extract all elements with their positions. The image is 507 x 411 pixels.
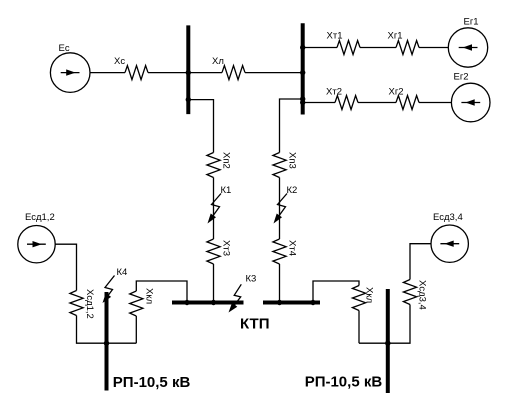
- svg-text:К2: К2: [287, 185, 298, 196]
- svg-text:Xc: Xc: [114, 56, 125, 67]
- resistor Xkl right: [352, 286, 365, 311]
- wire bus1 to left feeder drop: [188, 100, 213, 153]
- svg-text:К4: К4: [117, 267, 128, 278]
- node KTP-left-b: [211, 300, 216, 305]
- svg-text:Хт1: Хт1: [327, 30, 343, 41]
- node RP-left: [104, 341, 109, 346]
- svg-text:Хт4: Хт4: [287, 240, 298, 256]
- svg-text:Ег1: Ег1: [464, 16, 479, 27]
- fault K4: [103, 276, 115, 304]
- svg-text:Ег2: Ег2: [454, 72, 469, 83]
- resistor Xt1: [337, 41, 360, 55]
- svg-text:Хсд1,2: Хсд1,2: [84, 289, 95, 319]
- RP bus right: [386, 289, 390, 393]
- wire Xg1 to Eg1: [419, 47, 448, 49]
- wire Esd34 to Xsd34: [410, 244, 431, 280]
- KTP bus right section: [263, 301, 320, 305]
- svg-text:Хл: Хл: [212, 56, 224, 67]
- wire Xt1 to Xg1: [360, 47, 396, 49]
- wire Xc to bus1: [148, 72, 188, 74]
- svg-text:Хт3: Хт3: [221, 240, 232, 256]
- generator Eg2: [451, 83, 490, 122]
- wire Esd12 to Xsd12: [55, 244, 76, 290]
- node bus2-low1: [300, 96, 305, 101]
- svg-text:РП-10,5 кВ: РП-10,5 кВ: [305, 374, 383, 391]
- source Esd34: [431, 225, 468, 262]
- svg-text:Хг2: Хг2: [389, 86, 404, 97]
- node KTP-right-a: [277, 300, 282, 305]
- resistor Xc: [125, 66, 148, 80]
- node bus2-main: [300, 70, 305, 75]
- resistor Xt3: [207, 239, 220, 264]
- resistor Xl: [222, 66, 245, 80]
- svg-text:Ec: Ec: [59, 43, 70, 54]
- arrow in Eg2: [461, 99, 480, 105]
- node bus1-lower: [186, 97, 191, 102]
- svg-text:Есд3,4: Есд3,4: [433, 212, 463, 223]
- wire Xt4 to KTP bus right: [279, 264, 281, 303]
- wire Xsd34 to RP bus right: [359, 305, 410, 344]
- resistor Xp3: [273, 153, 286, 178]
- wire Xkl right to KTP: [313, 281, 359, 303]
- KTP bus left section: [172, 301, 244, 305]
- wire Xkl right bottom stub: [358, 311, 360, 344]
- resistor Xg1: [396, 41, 419, 55]
- node RP-right: [385, 341, 390, 346]
- svg-text:КТП: КТП: [240, 316, 269, 333]
- svg-text:Хг1: Хг1: [388, 30, 403, 41]
- generator Eg1: [448, 28, 487, 67]
- wire Xkl left bottom stub: [135, 316, 137, 343]
- arrow in Esd12: [27, 241, 46, 247]
- wire Xkl left to KTP: [136, 281, 187, 303]
- arrow in Ec: [61, 69, 80, 75]
- arrow in Eg1: [459, 44, 478, 50]
- node KTP-left-a: [184, 300, 189, 305]
- wire Xp3 to K2: [279, 178, 281, 240]
- wire bus2 to Xt1: [303, 47, 337, 49]
- resistor Xt4: [273, 239, 286, 264]
- fault K2: [274, 194, 288, 224]
- resistor Xg2: [396, 96, 419, 110]
- resistor Xsd12: [70, 291, 83, 316]
- node bus2-top: [300, 45, 305, 50]
- svg-text:Есд1,2: Есд1,2: [25, 212, 55, 223]
- wire Xl to bus2: [245, 72, 303, 74]
- svg-text:К3: К3: [246, 274, 257, 285]
- wire Xg2 to Eg2: [419, 102, 451, 104]
- resistor Xp2: [207, 153, 220, 178]
- svg-text:Хп3: Хп3: [287, 152, 298, 169]
- resistor Xsd34: [403, 280, 416, 305]
- resistor Xkl left: [130, 291, 143, 316]
- wire Xp2 to K1: [213, 178, 215, 240]
- wire Ec to Xc: [90, 72, 125, 74]
- svg-text:Хсд3,4: Хсд3,4: [417, 280, 428, 310]
- svg-text:РП-10,5 кВ: РП-10,5 кВ: [113, 374, 191, 391]
- wire bus1 to Xl: [188, 72, 222, 74]
- wire Xt3 to KTP bus: [213, 264, 215, 303]
- wire bus2 to right feeder drop: [280, 99, 303, 153]
- fault K3: [229, 284, 242, 312]
- source Esd12: [18, 226, 55, 263]
- node KTP-right-b: [310, 300, 315, 305]
- bus 1 (left 115 kV busbar): [186, 25, 190, 114]
- svg-text:Хкл: Хкл: [144, 288, 155, 304]
- source Ec: [50, 53, 90, 93]
- node bus2-low2: [300, 100, 305, 105]
- RP bus left: [105, 292, 109, 391]
- bus 2 (right 115 kV busbar): [301, 23, 305, 114]
- svg-text:К1: К1: [221, 185, 232, 196]
- resistor Xt2: [335, 96, 358, 110]
- wire Xt2 to Xg2: [358, 102, 396, 104]
- fault K1: [208, 194, 222, 224]
- wire Xsd12 to RP bus left: [77, 316, 137, 344]
- arrow in Esd34: [440, 241, 459, 247]
- svg-text:Хкл: Хкл: [364, 287, 375, 303]
- svg-text:Хп2: Хп2: [221, 152, 232, 169]
- node bus1-main: [186, 70, 191, 75]
- wire bus2 to Xt2: [303, 102, 335, 104]
- svg-text:Хт2: Хт2: [326, 86, 342, 97]
